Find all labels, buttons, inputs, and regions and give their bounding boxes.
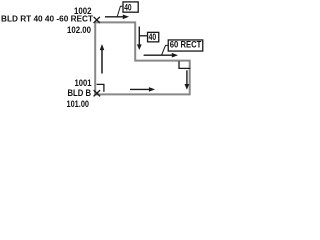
node label box 60 RECT <box>168 40 203 51</box>
wire: leader to label 60 RECT <box>162 45 169 55</box>
node 1001 origin marker X <box>94 90 101 96</box>
svg-text:BLD RT 40 40 -60 RECT: BLD RT 40 40 -60 RECT <box>1 14 94 24</box>
node start marker square (bottom-left) <box>97 84 104 91</box>
svg-text:40: 40 <box>149 32 157 43</box>
wire: direction arrow right (bottom edge) <box>130 87 155 92</box>
wire: tick to label 40 (mid) <box>140 35 147 37</box>
node label box 40 (mid) <box>148 32 159 43</box>
svg-text:60 RECT: 60 RECT <box>170 40 202 50</box>
wire: direction arrow down (right edge) <box>185 70 190 90</box>
svg-text:40: 40 <box>124 2 131 12</box>
wire: direction arrow right (top) <box>105 15 129 20</box>
svg-text:101.00: 101.00 <box>67 99 90 109</box>
wire: leader to label 40 (top) <box>117 6 122 16</box>
wire: direction arrow right (middle step) <box>144 53 178 58</box>
svg-text:102.00: 102.00 <box>67 25 91 35</box>
node 1002 origin marker X <box>94 17 100 23</box>
node step corner marker square (right) <box>179 61 190 68</box>
wire: direction arrow down (right of mid vertical) <box>137 27 142 51</box>
wire: toolpath outline (gray staircase) <box>95 22 190 94</box>
node label box 40 (top) <box>123 2 138 13</box>
svg-text:BLD B: BLD B <box>68 88 92 98</box>
wire: direction arrow up (left edge) <box>100 44 105 73</box>
svg-text:1001: 1001 <box>75 78 92 88</box>
